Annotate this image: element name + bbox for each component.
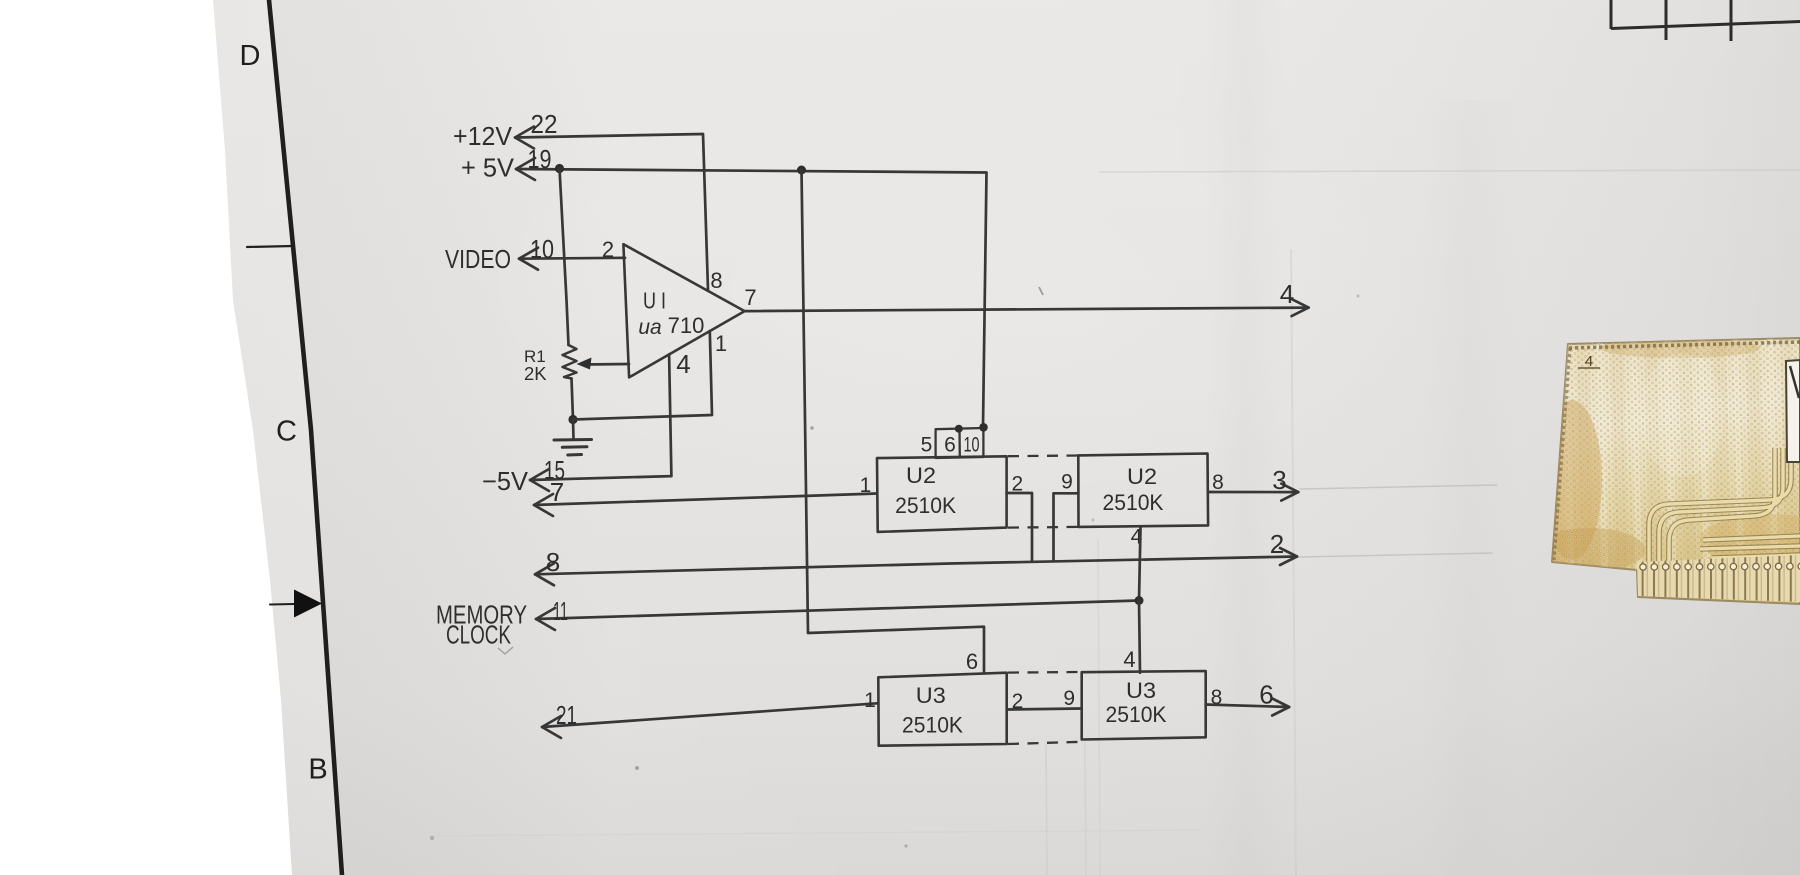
svg-text:6: 6 <box>1259 680 1273 710</box>
svg-text:2: 2 <box>602 237 614 262</box>
svg-text:CLOCK: CLOCK <box>446 620 511 650</box>
svg-text:ua: ua <box>638 316 661 339</box>
svg-text:U2: U2 <box>906 463 936 488</box>
svg-text:1: 1 <box>864 689 876 712</box>
svg-text:VIDEO: VIDEO <box>445 244 511 274</box>
svg-text:2510K: 2510K <box>895 493 956 518</box>
svg-text:9: 9 <box>1061 471 1073 494</box>
svg-text:U2: U2 <box>1127 464 1157 489</box>
svg-text:10: 10 <box>530 234 554 264</box>
svg-text:3: 3 <box>1272 465 1286 495</box>
svg-text:2: 2 <box>1270 529 1284 559</box>
svg-text:4: 4 <box>1280 279 1294 309</box>
svg-text:22: 22 <box>531 109 558 139</box>
svg-text:2510K: 2510K <box>902 713 963 738</box>
svg-text:U I: U I <box>643 288 666 314</box>
svg-text:7: 7 <box>744 285 756 310</box>
svg-text:+ 5V: + 5V <box>461 153 515 183</box>
svg-text:7: 7 <box>550 477 564 507</box>
svg-text:+12V: +12V <box>453 121 513 151</box>
svg-text:4: 4 <box>676 349 690 379</box>
svg-text:11: 11 <box>553 596 568 626</box>
svg-text:8: 8 <box>1212 471 1224 494</box>
svg-text:C: C <box>276 416 297 448</box>
svg-text:2K: 2K <box>524 363 547 384</box>
svg-text:D: D <box>240 40 261 72</box>
svg-text:21: 21 <box>556 700 577 730</box>
svg-text:−5V: −5V <box>482 466 529 496</box>
svg-text:U3: U3 <box>1126 678 1156 703</box>
svg-text:9: 9 <box>1063 687 1075 710</box>
svg-text:6: 6 <box>966 649 978 674</box>
svg-text:1: 1 <box>715 331 727 356</box>
svg-text:8: 8 <box>710 268 722 293</box>
svg-text:1: 1 <box>860 474 872 497</box>
svg-text:5: 5 <box>921 434 933 457</box>
svg-text:19: 19 <box>528 144 552 174</box>
svg-text:B: B <box>308 754 327 786</box>
svg-text:6: 6 <box>944 434 956 457</box>
svg-text:8: 8 <box>546 547 560 577</box>
svg-text:U3: U3 <box>916 683 946 708</box>
svg-text:710: 710 <box>668 313 705 338</box>
svg-text:2510K: 2510K <box>1103 490 1164 515</box>
svg-text:4: 4 <box>1123 647 1135 672</box>
svg-text:2510K: 2510K <box>1106 702 1167 727</box>
svg-text:10: 10 <box>964 434 980 457</box>
